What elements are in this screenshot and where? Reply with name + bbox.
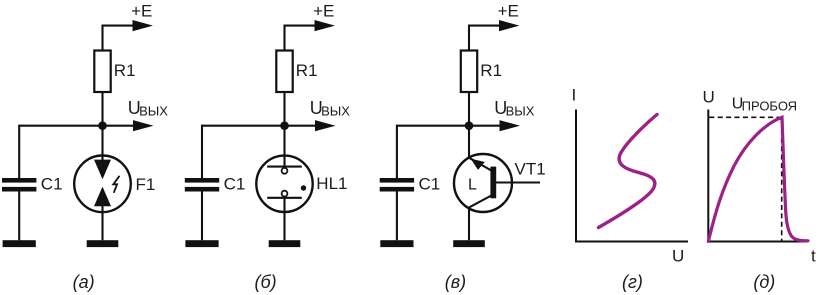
svg-text:(б): (б) [255,272,277,292]
svg-text:U: U [672,247,684,266]
svg-text:L: L [468,176,477,193]
svg-text:I: I [572,86,577,105]
svg-text:VT1: VT1 [515,160,546,179]
svg-text:HL1: HL1 [316,174,347,193]
svg-text:C1: C1 [419,174,441,193]
svg-text:(г): (г) [622,272,643,292]
svg-text:+E: +E [498,1,519,20]
svg-text:R1: R1 [296,61,318,80]
svg-text:U: U [703,88,715,107]
svg-text:t: t [811,247,816,266]
svg-text:R1: R1 [480,61,502,80]
svg-text:+E: +E [313,1,334,20]
svg-text:C1: C1 [224,174,246,193]
svg-text:ПРОБОЯ: ПРОБОЯ [742,98,797,113]
svg-text:ВЫХ: ВЫХ [321,103,350,118]
svg-text:(в): (в) [445,272,466,292]
svg-text:ВЫХ: ВЫХ [506,103,535,118]
svg-text:ВЫХ: ВЫХ [139,103,168,118]
svg-text:C1: C1 [41,174,63,193]
svg-text:(а): (а) [73,272,95,292]
svg-text:+E: +E [131,1,152,20]
svg-text:F1: F1 [136,175,156,194]
svg-text:(д): (д) [753,272,775,292]
svg-text:R1: R1 [114,61,136,80]
